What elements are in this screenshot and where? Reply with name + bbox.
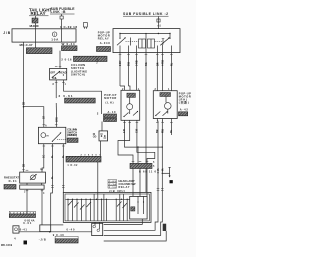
wire fusible link to J/B	[61, 19, 63, 29]
wire motor LH pin 1 to bus	[125, 120, 163, 147]
svg-text:C-14: C-14	[109, 183, 117, 186]
stubs J/B to hub	[94, 222, 96, 225]
svg-text:LINK :B: LINK :B	[51, 10, 67, 14]
svg-text:MU-C-40: MU-C-40	[30, 24, 39, 28]
svg-text:RHEOSTAT: RHEOSTAT	[4, 176, 19, 180]
junction dots on RH wires	[157, 172, 158, 173]
branch from left wire	[23, 106, 25, 108]
svg-text:(回路): (回路)	[179, 100, 189, 104]
dimmer right label	[67, 128, 77, 138]
wire motor M1 to contacts	[129, 110, 131, 114]
sub fusible link 2 label	[123, 12, 169, 16]
svg-text:10A: 10A	[51, 38, 59, 42]
wire switch down to dimmer	[55, 103, 58, 127]
svg-text:SWITCH): SWITCH)	[71, 73, 85, 77]
connector A-42	[179, 112, 188, 116]
svg-text:A-04X: A-04X	[100, 41, 110, 45]
svg-text:2-B: 2-B	[123, 129, 126, 133]
wire to harness arrow	[162, 172, 169, 174]
svg-text:A-42: A-42	[180, 107, 189, 111]
pin ticks strip C-14	[132, 161, 149, 163]
svg-text:3-RB: 3-RB	[136, 60, 139, 66]
svg-text:F-10: F-10	[109, 187, 117, 189]
fuse F1 10A	[51, 32, 59, 42]
outermost with tab	[163, 224, 167, 231]
pop-up motor relay box	[113, 29, 180, 53]
wire color labels LH	[123, 128, 139, 133]
bus line inside J/B	[66, 198, 130, 200]
dimmer out wires	[42, 144, 44, 172]
connector block inner box	[131, 207, 135, 211]
svg-text:RELAY: RELAY	[119, 185, 130, 189]
connector MU-C-40	[32, 18, 38, 23]
pop-up motor LH box A-10	[121, 90, 140, 120]
svg-text:HEAD: HEAD	[59, 72, 66, 75]
wire rect to J/B corner	[51, 224, 64, 226]
pop-up motor RH box A-42	[153, 91, 177, 119]
svg-text:2B: 2B	[22, 102, 25, 105]
switch arrow	[52, 71, 60, 77]
svg-text:D-01: D-01	[9, 179, 18, 183]
wire to column switch	[59, 51, 61, 69]
svg-text:OD: OD	[93, 136, 97, 139]
wire tail light relay to connector	[35, 16, 37, 18]
wire sub fusible link	[61, 14, 63, 16]
black ref square	[170, 180, 173, 183]
connector W 0-44	[62, 46, 78, 51]
wire through J/B (mid)	[61, 29, 63, 42]
svg-text:2-BY: 2-BY	[119, 60, 122, 66]
wire color labels dimmer out	[43, 155, 66, 179]
strip bottom-left pins text	[9, 211, 35, 214]
connector strip mid-right	[130, 163, 152, 168]
connector D-01	[4, 185, 16, 190]
fusible link symbol	[60, 16, 63, 19]
svg-text:OFF: OFF	[50, 72, 55, 75]
fusible link 2 symbol	[157, 19, 160, 22]
rotated labels left wires	[22, 102, 58, 167]
small rects on wire	[40, 225, 51, 232]
relay internals	[117, 33, 171, 53]
inner box2	[130, 196, 147, 219]
tail light relay label	[29, 7, 52, 16]
wire to motor M1	[129, 97, 131, 103]
svg-text:MOTOR: MOTOR	[104, 96, 116, 100]
pop-up motor LH label	[104, 93, 116, 114]
rheostat out wires	[26, 183, 28, 185]
motor M2	[165, 103, 172, 110]
wire motor RH pin 1 to J/B	[104, 119, 158, 231]
wire left main	[23, 42, 25, 172]
switch pins	[55, 80, 57, 98]
wire from 0-61 connector down mid	[101, 122, 103, 131]
wires inside inner box	[137, 196, 139, 214]
pin ticks dimmer out	[43, 146, 65, 187]
dimmer switch box	[38, 127, 65, 143]
connector MU-C-37	[26, 48, 52, 54]
switch contacts motor RH	[156, 112, 161, 116]
connector A-10	[104, 114, 117, 117]
svg-text:(LH): (LH)	[106, 101, 114, 105]
lamp symbols in hub	[93, 225, 96, 228]
wire connector to J/B box	[35, 23, 37, 29]
svg-text:A-10: A-10	[108, 110, 117, 114]
wire switch to right	[63, 91, 101, 114]
rheostat symbol R1	[31, 175, 36, 180]
indicator lamp in dimmer switch	[41, 133, 46, 138]
motor M1	[127, 104, 133, 110]
switch diagonals in box	[68, 201, 73, 206]
svg-text:BR: BR	[156, 129, 159, 133]
diode symbols D1 D2	[101, 135, 103, 137]
svg-text:1R: 1R	[43, 116, 46, 119]
svg-text:-J/B: -J/B	[39, 238, 46, 242]
svg-text:BR: BR	[156, 62, 159, 66]
component B top	[84, 23, 88, 29]
rotated wire labels	[119, 59, 173, 66]
bottom big box	[63, 192, 151, 222]
wire motor LH pin 3	[137, 120, 155, 163]
hub box bottom	[92, 223, 103, 235]
connector block inside motor RH	[160, 93, 171, 97]
svg-text:MB-0439: MB-0439	[1, 244, 13, 247]
nested frame lines	[104, 219, 143, 224]
pin labels above motor boxes	[122, 88, 170, 91]
connector strip right of switch	[74, 56, 108, 61]
pin ticks below relay	[119, 54, 173, 56]
pin ticks rheostat	[26, 170, 44, 191]
ground square	[24, 241, 28, 245]
wire diode to connector D-02	[99, 141, 101, 156]
wire motor RH pin 3	[170, 119, 172, 136]
diode box	[99, 131, 108, 141]
connector A-04X	[97, 47, 111, 52]
svg-text:0-40: 0-40	[67, 228, 76, 232]
svg-text:RELAY: RELAY	[98, 37, 109, 41]
wire to motor M2	[165, 97, 167, 103]
wire connector D-02 to J/B	[97, 162, 99, 194]
connector 0-61	[65, 98, 96, 103]
svg-text:4A: 4A	[161, 168, 164, 171]
svg-text:RL: RL	[170, 129, 173, 133]
sub fusible link label	[50, 7, 75, 14]
svg-text:B 68 11 6: B 68 11 6	[139, 169, 157, 173]
svg-text:1 D-02: 1 D-02	[67, 164, 78, 167]
svg-text:MU-C-37: MU-C-37	[20, 43, 33, 47]
legend text	[108, 179, 136, 189]
svg-text:SUB FUSIBLE LINK :2: SUB FUSIBLE LINK :2	[123, 12, 168, 16]
wire through J/B (left)	[35, 29, 37, 42]
svg-text:1 C-39 18: 1 C-39 18	[60, 25, 77, 29]
pin ticks column switch	[55, 67, 65, 83]
svg-text:1G: 1G	[43, 155, 46, 158]
dimmer switch contact arrow	[52, 133, 61, 142]
pin ticks motor LH	[123, 122, 138, 124]
svg-text:0-41: 0-41	[20, 227, 28, 231]
J/B box	[12, 29, 76, 42]
svg-text:2 0-16: 2 0-16	[61, 58, 72, 62]
harness continuation arrow	[169, 167, 171, 176]
junction dots on bus	[67, 199, 128, 200]
rheostat box	[20, 172, 46, 183]
thin bar under rheostat	[20, 185, 44, 189]
connector strip bottom-mid	[55, 236, 78, 239]
junction dots	[137, 146, 138, 147]
column switch label	[71, 63, 87, 77]
svg-text:RG: RG	[145, 62, 148, 66]
wire color labels RH	[156, 128, 173, 171]
svg-text:0-01: 0-01	[23, 221, 32, 225]
junction dot bottom wire	[49, 231, 51, 233]
small lamp icon	[13, 226, 19, 233]
svg-text:C-03: C-03	[109, 181, 117, 183]
svg-text:2 0-61: 2 0-61	[59, 94, 73, 98]
connector dimmer switch	[67, 138, 78, 142]
svg-text:J/B: J/B	[3, 31, 11, 35]
pop-up motor relay label	[98, 31, 110, 46]
relay output wires	[119, 53, 121, 86]
column switch box	[50, 68, 67, 80]
verticals down to bottom edge	[68, 194, 127, 221]
bottom horizontal wire	[19, 231, 92, 233]
connector block inside motor LH	[127, 93, 135, 97]
wire motor RH pin 2 to J/B	[104, 119, 163, 236]
stub box to connector	[35, 42, 37, 48]
switch contacts motor LH	[133, 112, 138, 116]
pin ticks motor RH	[156, 123, 173, 191]
svg-text:2B: 2B	[22, 164, 25, 167]
wire motor LH pin 2	[118, 120, 133, 163]
wire link2 to relay	[157, 17, 159, 29]
pop-up motor RH label	[179, 92, 191, 112]
svg-text:RL: RL	[170, 62, 173, 66]
strip to inner box wires	[132, 169, 134, 197]
svg-text:1RG: 1RG	[56, 117, 59, 122]
svg-text:4A: 4A	[157, 168, 160, 171]
wire branch to connector C-14	[137, 147, 139, 163]
wire motor M2 to contacts	[167, 109, 169, 113]
svg-text:(DIMMER): (DIMMER)	[67, 133, 77, 137]
svg-text:4-RW: 4-RW	[162, 59, 165, 66]
svg-text:RELAY: RELAY	[31, 11, 46, 16]
connector strip bottom-left	[9, 214, 35, 218]
